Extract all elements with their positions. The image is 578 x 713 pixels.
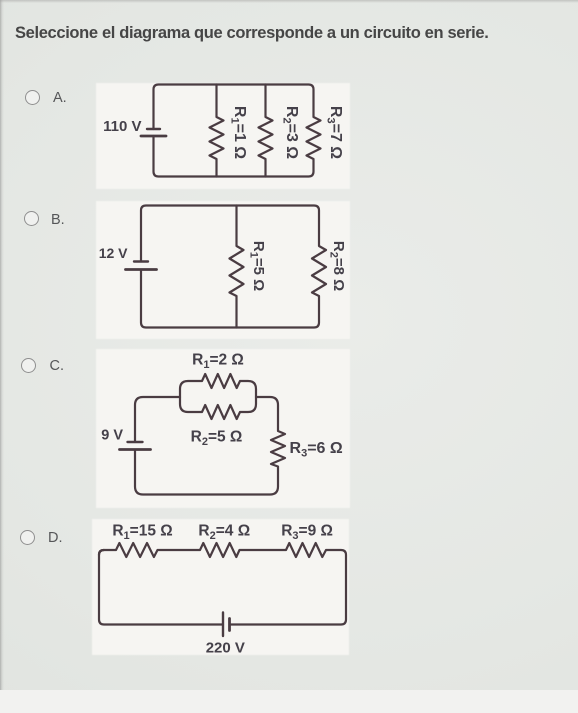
svg-text:R2=8 Ω: R2=8 Ω [327, 241, 347, 291]
svg-text:220 V: 220 V [206, 640, 245, 657]
battery A long plate [141, 135, 166, 138]
label letter A [53, 90, 67, 106]
top wire with resistor R1, R2, R3 [99, 543, 346, 625]
svg-text:R3=6 Ω: R3=6 Ω [290, 440, 343, 460]
question title [15, 24, 488, 43]
svg-text:R3=9 Ω: R3=9 Ω [281, 523, 333, 543]
wire + resistor R2 bottom branch of parallel box [180, 397, 256, 419]
option D white card [92, 519, 349, 655]
svg-text:R1=2 Ω: R1=2 Ω [192, 352, 244, 372]
wire: right side with resistor R3, bottom wire back to battery [135, 397, 285, 495]
battery A short plate [147, 128, 160, 130]
svg-text:R3=7 Ω: R3=7 Ω [324, 106, 344, 159]
battery D short plate [228, 619, 231, 631]
svg-text:R2=3 Ω: R2=3 Ω [280, 106, 300, 159]
option B white card [96, 201, 350, 339]
wire: option B outer loop (with battery gap on left edge) [141, 206, 326, 328]
radio C [21, 358, 36, 373]
option A white card [96, 83, 350, 189]
svg-text:R2=5 Ω: R2=5 Ω [191, 429, 243, 449]
wire + resistor R1 branch [230, 206, 244, 328]
label letter D [48, 530, 63, 546]
svg-text:12 V: 12 V [99, 245, 128, 261]
wire + resistor R1 top branch of parallel box [180, 374, 256, 397]
battery B short plate [134, 260, 148, 262]
battery B long plate [126, 268, 157, 271]
wire: left vertical + top wire to parallel box [135, 397, 180, 442]
option C white card [96, 349, 350, 508]
svg-text:R1=15 Ω: R1=15 Ω [112, 523, 172, 543]
svg-text:R1=1 Ω: R1=1 Ω [229, 106, 249, 159]
label letter B [51, 212, 65, 228]
wire: option A outer loop (with battery gap on left edge) [154, 85, 321, 177]
svg-text:9 V: 9 V [101, 428, 123, 444]
wire + resistor R1 branch [210, 85, 224, 177]
radio A [25, 90, 40, 105]
battery D long plate [222, 613, 224, 637]
svg-text:R1=5 Ω: R1=5 Ω [248, 241, 268, 291]
battery C short plate [128, 441, 143, 443]
wire + resistor R2 branch [259, 85, 273, 177]
radio D [20, 530, 35, 545]
label letter C [50, 358, 65, 374]
svg-text:R2=4 Ω: R2=4 Ω [198, 523, 250, 543]
wire: option D outer loop with three series resistors on top and battery gap on bottom [99, 550, 223, 625]
radio B [24, 211, 39, 226]
battery C long plate [120, 448, 151, 451]
svg-text:110 V: 110 V [103, 118, 141, 135]
